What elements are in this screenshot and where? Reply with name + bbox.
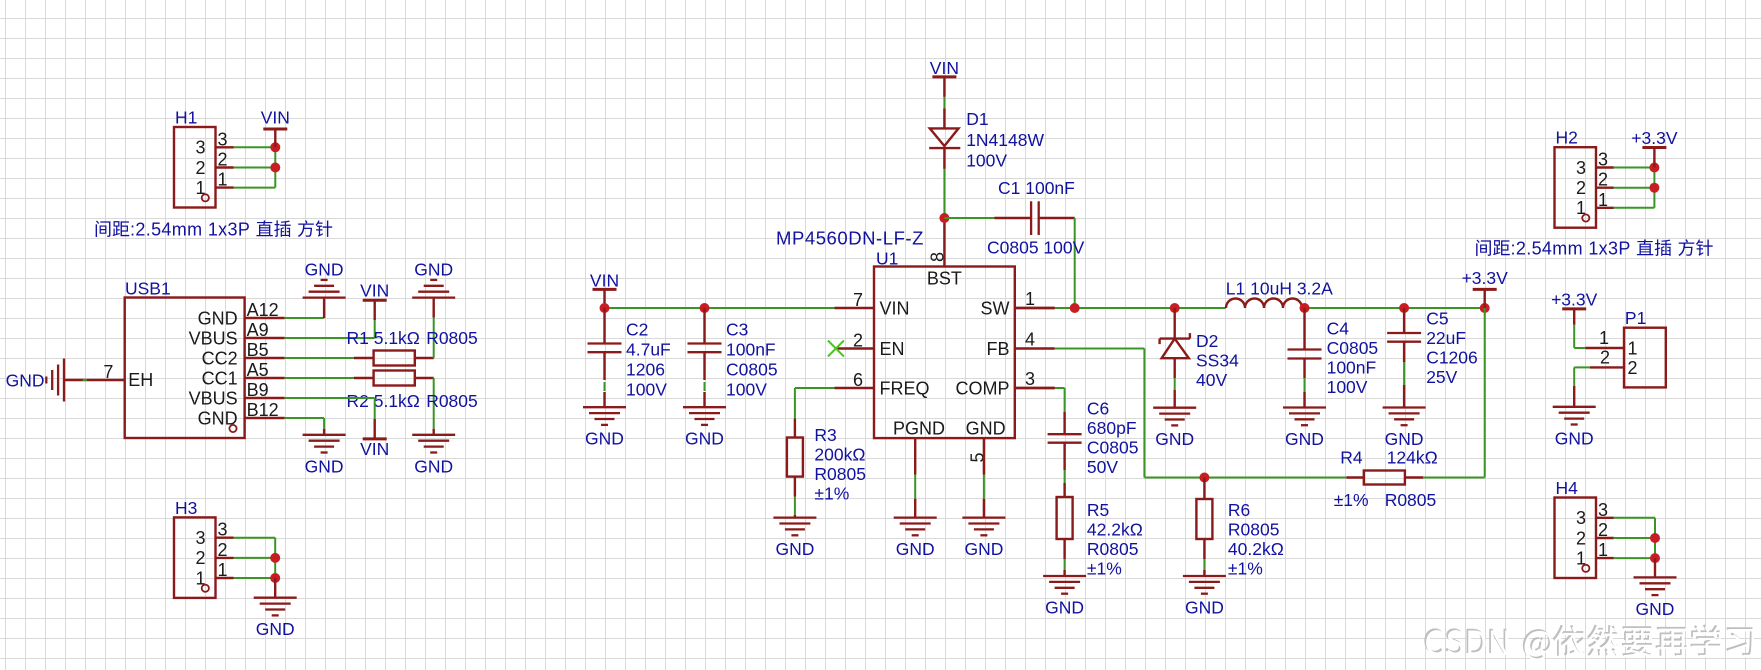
svg-text:CC1: CC1 <box>202 368 238 388</box>
svg-text::2.54mm 1x3P: :2.54mm 1x3P <box>130 220 250 240</box>
svg-text:C6: C6 <box>1087 399 1109 419</box>
svg-text:H4: H4 <box>1556 478 1579 498</box>
svg-text:3: 3 <box>1598 500 1608 520</box>
svg-text:7: 7 <box>853 290 863 310</box>
svg-text:3: 3 <box>1598 150 1608 170</box>
svg-text:GND: GND <box>966 419 1006 439</box>
svg-text:B5: B5 <box>247 340 269 360</box>
svg-text:MP4560DN-LF-Z: MP4560DN-LF-Z <box>776 228 924 249</box>
svg-text:H1: H1 <box>175 108 197 128</box>
svg-text:R0805: R0805 <box>426 328 478 348</box>
svg-text:±1%: ±1% <box>1228 559 1263 579</box>
svg-text::2.54mm 1x3P: :2.54mm 1x3P <box>1511 239 1631 259</box>
svg-text:C1 100nF: C1 100nF <box>998 178 1075 198</box>
svg-text:VIN: VIN <box>930 58 959 78</box>
svg-text:C0805: C0805 <box>726 359 778 379</box>
svg-text:680pF: 680pF <box>1087 418 1137 438</box>
svg-text:4.7uF: 4.7uF <box>626 339 671 359</box>
svg-text:CC2: CC2 <box>202 348 238 368</box>
svg-text:2: 2 <box>195 158 205 178</box>
svg-text:VIN: VIN <box>360 439 389 459</box>
svg-text:A5: A5 <box>247 360 269 380</box>
svg-text:C3: C3 <box>726 319 748 339</box>
svg-text:VIN: VIN <box>880 298 910 318</box>
svg-text:C1206: C1206 <box>1426 348 1478 368</box>
svg-text:FB: FB <box>986 339 1009 359</box>
svg-text:C2: C2 <box>626 319 648 339</box>
svg-text:2: 2 <box>1600 348 1610 368</box>
svg-text:+3.3V: +3.3V <box>1462 268 1509 288</box>
svg-text:VBUS: VBUS <box>189 328 238 348</box>
svg-text:7: 7 <box>103 362 113 382</box>
svg-text:GND: GND <box>585 429 624 449</box>
svg-text:L1 10uH 3.2A: L1 10uH 3.2A <box>1226 279 1333 299</box>
svg-text:1: 1 <box>1025 289 1035 309</box>
svg-text:GND: GND <box>896 539 935 559</box>
svg-text:±1%: ±1% <box>814 484 849 504</box>
svg-text:42.2kΩ: 42.2kΩ <box>1087 520 1143 540</box>
svg-text:GND: GND <box>964 539 1003 559</box>
svg-text:22uF: 22uF <box>1426 328 1466 348</box>
svg-text:H3: H3 <box>175 498 197 518</box>
svg-text:VIN: VIN <box>261 107 290 127</box>
svg-text:GND: GND <box>1045 598 1084 618</box>
svg-text:R0805: R0805 <box>426 391 478 411</box>
svg-text:COMP: COMP <box>956 378 1010 398</box>
svg-text:GND: GND <box>775 539 814 559</box>
svg-text:GND: GND <box>1385 429 1424 449</box>
svg-text:2: 2 <box>1576 528 1586 548</box>
svg-text:SS34: SS34 <box>1196 351 1239 371</box>
svg-text:200kΩ: 200kΩ <box>814 445 865 465</box>
svg-text:R6: R6 <box>1228 500 1250 520</box>
svg-text:USB1: USB1 <box>125 279 171 299</box>
svg-text:D2: D2 <box>1196 331 1218 351</box>
svg-text:A9: A9 <box>247 320 269 340</box>
svg-text:1: 1 <box>218 170 228 190</box>
svg-text:1: 1 <box>218 560 228 580</box>
svg-text:SW: SW <box>981 298 1010 318</box>
svg-text:VIN: VIN <box>360 281 389 301</box>
svg-text:1: 1 <box>1598 190 1608 210</box>
svg-text:2: 2 <box>1598 170 1608 190</box>
svg-text:GND: GND <box>1185 598 1224 618</box>
svg-text:25V: 25V <box>1426 367 1457 387</box>
svg-text:2: 2 <box>1628 358 1638 378</box>
svg-text:3: 3 <box>218 520 228 540</box>
svg-text:2: 2 <box>1598 520 1608 540</box>
svg-text:1N4148W: 1N4148W <box>966 130 1044 150</box>
svg-text:3: 3 <box>195 528 205 548</box>
svg-text:GND: GND <box>414 456 453 476</box>
svg-text:1: 1 <box>1598 540 1608 560</box>
svg-text:C0805: C0805 <box>1087 438 1139 458</box>
svg-text:GND: GND <box>1636 599 1675 619</box>
svg-text:EH: EH <box>128 370 153 390</box>
svg-text:GND: GND <box>1285 429 1324 449</box>
svg-text:FREQ: FREQ <box>880 378 930 398</box>
svg-text:R4: R4 <box>1340 448 1363 468</box>
svg-text:50V: 50V <box>1087 457 1118 477</box>
svg-text:100V: 100V <box>1327 377 1368 397</box>
svg-text:C0805 100V: C0805 100V <box>987 238 1085 258</box>
svg-text:BST: BST <box>927 268 962 288</box>
svg-text:±1%: ±1% <box>1334 490 1369 510</box>
svg-text:40V: 40V <box>1196 370 1227 390</box>
svg-text:2: 2 <box>195 548 205 568</box>
svg-text:4: 4 <box>1025 330 1035 350</box>
svg-text:1: 1 <box>1599 328 1609 348</box>
svg-text:+3.3V: +3.3V <box>1631 128 1678 148</box>
svg-text:40.2kΩ: 40.2kΩ <box>1228 539 1284 559</box>
svg-text:B9: B9 <box>247 380 269 400</box>
svg-text:R0805: R0805 <box>1228 520 1280 540</box>
svg-text:3: 3 <box>218 129 228 149</box>
svg-text:GND: GND <box>1555 428 1594 448</box>
svg-text:D1: D1 <box>966 109 988 129</box>
svg-text:A12: A12 <box>247 300 279 320</box>
svg-text:100nF: 100nF <box>1327 358 1377 378</box>
svg-text:+3.3V: +3.3V <box>1551 289 1598 309</box>
svg-text:C4: C4 <box>1327 319 1350 339</box>
svg-text:VIN: VIN <box>590 271 619 291</box>
svg-text:2: 2 <box>853 331 863 351</box>
svg-text:100nF: 100nF <box>726 339 776 359</box>
svg-text:C5: C5 <box>1426 309 1448 329</box>
svg-text:GND: GND <box>1155 429 1194 449</box>
svg-text:VBUS: VBUS <box>189 388 238 408</box>
svg-text:GND: GND <box>6 371 45 391</box>
svg-text:GND: GND <box>414 260 453 280</box>
svg-text:100V: 100V <box>626 379 667 399</box>
svg-text:3: 3 <box>1025 369 1035 389</box>
svg-text:C0805: C0805 <box>1327 338 1379 358</box>
svg-text:GND: GND <box>305 260 344 280</box>
svg-text:2: 2 <box>218 540 228 560</box>
svg-text:100V: 100V <box>726 379 767 399</box>
svg-text:124kΩ: 124kΩ <box>1387 448 1438 468</box>
svg-text:R2 5.1kΩ: R2 5.1kΩ <box>347 391 420 411</box>
svg-text:GND: GND <box>256 619 295 639</box>
svg-text:3: 3 <box>1576 508 1586 528</box>
svg-text:2: 2 <box>218 150 228 170</box>
svg-text:6: 6 <box>853 370 863 390</box>
svg-text:B12: B12 <box>247 400 279 420</box>
svg-text:R5: R5 <box>1087 500 1109 520</box>
svg-text:100V: 100V <box>966 151 1007 171</box>
svg-text:8: 8 <box>928 252 948 262</box>
svg-text:GND: GND <box>198 308 238 328</box>
svg-text:H2: H2 <box>1556 128 1578 148</box>
svg-text:2: 2 <box>1576 178 1586 198</box>
svg-text:R1 5.1kΩ: R1 5.1kΩ <box>347 328 420 348</box>
svg-text:1: 1 <box>1628 339 1638 359</box>
svg-text:3: 3 <box>195 138 205 158</box>
svg-text:R3: R3 <box>814 425 836 445</box>
svg-text:GND: GND <box>685 429 724 449</box>
svg-text:R0805: R0805 <box>1087 539 1139 559</box>
svg-text:1206: 1206 <box>626 359 665 379</box>
svg-text:R0805: R0805 <box>1385 490 1437 510</box>
svg-text:R0805: R0805 <box>814 464 866 484</box>
svg-text:PGND: PGND <box>893 419 945 439</box>
svg-text:3: 3 <box>1576 158 1586 178</box>
svg-text:GND: GND <box>305 456 344 476</box>
svg-text:±1%: ±1% <box>1087 559 1122 579</box>
svg-text:P1: P1 <box>1625 308 1646 328</box>
svg-text:EN: EN <box>880 339 905 359</box>
